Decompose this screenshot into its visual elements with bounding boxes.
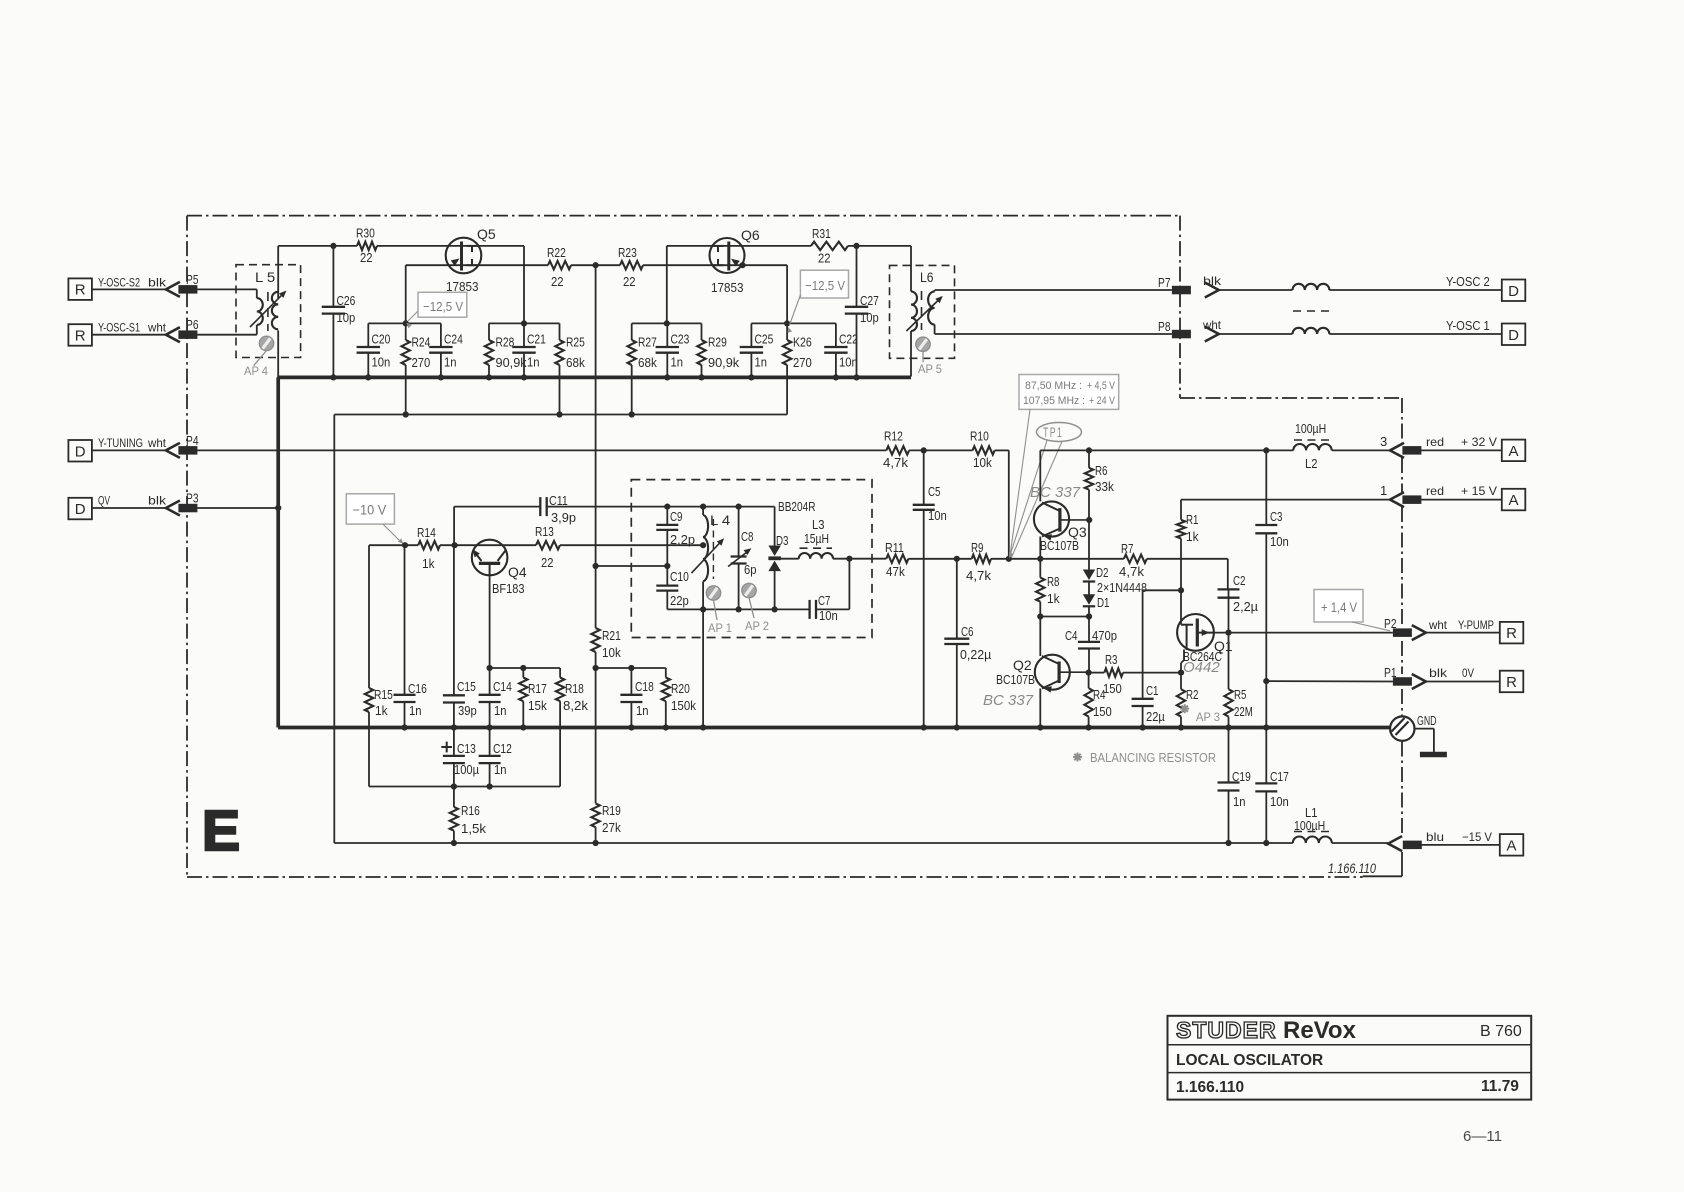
label L5: [255, 270, 275, 285]
wire: D2-D1 link: [1088, 582, 1090, 596]
svg-text:L1: L1: [1305, 806, 1318, 820]
label R27 value 68k: [638, 356, 657, 370]
node: R6 top junction: [1086, 447, 1092, 453]
capacitor C15: [443, 545, 465, 727]
node: L4 tap junction: [700, 542, 706, 548]
label L2 value 100µH: [1295, 422, 1326, 436]
svg-text:22: 22: [623, 275, 636, 289]
wire: block rail R27/C23/R29: [632, 322, 702, 324]
svg-text:R13: R13: [535, 525, 554, 539]
svg-text:R23: R23: [618, 246, 637, 260]
label R24: [412, 336, 431, 350]
svg-text:B 760: B 760: [1480, 1023, 1522, 1040]
label R10 value 10k: [973, 456, 992, 470]
wire: GND to earth: [1415, 729, 1434, 753]
label C21: [527, 333, 546, 347]
svg-text:P6: P6: [186, 318, 199, 332]
label R18: [565, 682, 584, 696]
wire: bead to D box (Y-OSC 2): [1329, 289, 1502, 291]
label 2x1N4448: [1097, 581, 1147, 595]
transistor Q4 (BF183): [472, 540, 508, 576]
svg-text:150: 150: [1103, 682, 1122, 696]
label R28 value 90,9k: [496, 356, 528, 370]
label BALANCING RESISTOR: [1090, 751, 1216, 765]
capacitor C16: [394, 545, 416, 727]
label C17 value 10n: [1270, 795, 1289, 809]
svg-text:C26: C26: [337, 294, 356, 308]
svg-text:C13: C13: [457, 742, 476, 756]
svg-text:O442: O442: [1183, 659, 1220, 676]
label R20 value 150k: [671, 699, 697, 713]
resistor R8: [1036, 559, 1044, 617]
node: ground bus junction C14/C12: [487, 724, 493, 730]
label Q1: [1214, 638, 1233, 654]
label Q6 type 17853: [711, 280, 744, 295]
connector pin P6: [166, 318, 199, 342]
resistor R23: [620, 261, 643, 269]
svg-text:+ 24 V: + 24 V: [1089, 395, 1116, 407]
label R6 value 33k: [1095, 480, 1114, 494]
wire: bead coupling dashes: [1293, 310, 1331, 312]
svg-text:22: 22: [360, 251, 373, 265]
wire: L5 variable-adjust arrow: [250, 291, 286, 328]
label C27: [860, 294, 879, 308]
wire: feedback column top: [595, 265, 597, 628]
label blu -15V: [1426, 830, 1492, 844]
svg-text:R19: R19: [602, 804, 621, 818]
ground terminal GND: [1390, 713, 1436, 741]
wire: L6 secondary top to P7: [935, 290, 1172, 291]
svg-text:33k: 33k: [1095, 480, 1114, 494]
label R15 value 1k: [375, 704, 388, 718]
transistor Q3 (BC107B): [1034, 501, 1089, 540]
capacitor C7: [810, 600, 816, 619]
svg-text:blk: blk: [148, 494, 167, 508]
svg-text:1k: 1k: [375, 704, 388, 718]
capacitor C27: [845, 246, 868, 378]
wire: Y-TUNING line across: [197, 449, 886, 451]
label C25: [755, 333, 774, 347]
label Q1 type BC264C: [1183, 649, 1222, 664]
node: rail junction R29: [698, 374, 704, 380]
resistor R30: [357, 242, 377, 250]
svg-text:A: A: [1508, 443, 1518, 460]
node: rail junction R28: [486, 374, 492, 380]
capacitor C19: [1218, 728, 1240, 844]
capacitor C25: [740, 323, 763, 377]
svg-text:AP 2: AP 2: [745, 619, 769, 633]
inductor L3: [799, 553, 833, 559]
capacitor C20: [357, 323, 380, 377]
svg-text:3: 3: [1380, 434, 1387, 449]
wire: border corner jog at -15V feedthrough: [1363, 852, 1402, 876]
node: rail junction C27: [853, 374, 859, 380]
capacitor C22: [824, 323, 847, 377]
svg-text:1k: 1k: [422, 557, 435, 571]
wire: dash-dot board boundary bottom edge: [187, 876, 1363, 878]
wire: dash-dot board boundary right lower edge: [1401, 398, 1403, 836]
svg-text:1n: 1n: [755, 356, 768, 370]
svg-text:L6: L6: [920, 270, 934, 285]
wire: R22-R23 link: [571, 264, 620, 266]
transistor Q5 (17853 dual-gate MOSFET): [446, 238, 482, 274]
connector box A (+32V): [1502, 440, 1526, 462]
resistor R7: [1124, 555, 1147, 563]
label C10: [670, 570, 689, 584]
adjustment point AP2: [742, 583, 769, 633]
label R1 value 1k: [1186, 530, 1199, 544]
label R24 value 270: [412, 356, 431, 370]
wire: L2 core dashes: [1294, 439, 1331, 441]
capacitor C24: [429, 323, 452, 377]
node: R1 bottom junction: [1178, 587, 1184, 593]
label red +32V: [1426, 435, 1497, 449]
node: ground bus junction C6: [954, 724, 960, 730]
node: ground bus junction C17: [1263, 724, 1269, 730]
transistor Q1 (BC264C JFET): [1177, 614, 1214, 651]
label Q6: [741, 227, 760, 243]
svg-text:470p: 470p: [1092, 629, 1117, 643]
svg-text:D3: D3: [776, 534, 789, 548]
label C8 value 6p: [744, 563, 757, 577]
node: ground bus junction Q2 emitter: [1037, 724, 1043, 730]
annotation box +1,4V: [1314, 590, 1390, 631]
label R3: [1105, 653, 1118, 667]
node: tank top rail C9 junction: [664, 504, 670, 510]
label R9: [971, 541, 984, 555]
adjustment point AP5: [916, 337, 942, 376]
svg-text:10n: 10n: [928, 509, 947, 523]
node: -15V junction R16: [451, 840, 457, 846]
capacitor C11: [540, 497, 546, 516]
svg-text:C27: C27: [860, 294, 879, 308]
label R10: [970, 430, 989, 444]
svg-text:15k: 15k: [528, 699, 547, 713]
wire: thick ground bus: [278, 726, 1390, 730]
label C19: [1232, 770, 1251, 784]
wire: L6 core dashes: [921, 291, 923, 330]
label O442 pencil note: [1183, 659, 1220, 676]
label R25: [566, 336, 585, 350]
label R27: [638, 336, 657, 350]
node: ground bus junction C1: [1140, 724, 1146, 730]
svg-text:10n: 10n: [1270, 535, 1289, 549]
node: base/C14 junction: [487, 665, 493, 671]
svg-text:Q6: Q6: [741, 227, 760, 243]
svg-text:C23: C23: [671, 333, 690, 347]
svg-text:Y-TUNING: Y-TUNING: [98, 436, 143, 450]
label R29 value 90,9k: [708, 356, 740, 370]
label C2 value 2,2µ: [1233, 600, 1258, 614]
svg-text:R30: R30: [356, 227, 375, 241]
wire: Q6 drain feed from block2: [666, 246, 668, 324]
node: C26 tap on drain rail: [330, 243, 336, 249]
node: ground bus junction R4: [1086, 724, 1092, 730]
label AP 3: [1196, 710, 1220, 724]
label QV blk: [98, 494, 167, 508]
svg-text:22: 22: [551, 275, 564, 289]
svg-text:AP 4: AP 4: [244, 364, 268, 378]
wire: L3 core dashes: [800, 547, 833, 549]
node: Q6 gate junction: [739, 262, 745, 268]
svg-text:C19: C19: [1232, 770, 1251, 784]
label R14 value 1k: [422, 557, 435, 571]
node: bias bus junction R27: [629, 411, 635, 417]
svg-text:1n: 1n: [444, 356, 457, 370]
svg-text:R6: R6: [1095, 464, 1108, 478]
svg-text:4,7k: 4,7k: [966, 569, 992, 583]
connector pin P3: [166, 492, 199, 516]
label L3: [812, 518, 825, 532]
svg-text:R1: R1: [1186, 513, 1199, 527]
capacitor C9: [656, 507, 678, 566]
svg-text:R29: R29: [708, 336, 727, 350]
label Y-OSC 2: [1446, 275, 1490, 289]
wire: +15V line: [1181, 499, 1390, 501]
wire: R7 to C2 column: [1147, 559, 1228, 590]
svg-text:R8: R8: [1047, 575, 1060, 589]
svg-text:A: A: [1508, 492, 1518, 509]
node: rail junction C26: [330, 374, 336, 380]
wire: L6 variable-adjust arrow: [906, 296, 942, 331]
label C13: [457, 742, 476, 756]
svg-text:D1: D1: [1097, 596, 1110, 610]
svg-text:+ 1,4 V: + 1,4 V: [1321, 600, 1357, 615]
resistor R25: [555, 323, 563, 414]
node: P1 0V junction: [1263, 678, 1269, 684]
wire: C3 column to ground bus: [1265, 681, 1267, 727]
node: -15V junction R19: [593, 840, 599, 846]
svg-text:Y-OSC 2: Y-OSC 2: [1446, 275, 1490, 289]
svg-text:4,7k: 4,7k: [1119, 565, 1145, 579]
label C27 value 10p: [860, 311, 879, 325]
svg-text:GND: GND: [1417, 713, 1437, 728]
svg-text:blk: blk: [1203, 274, 1222, 288]
connector pin P2: [1384, 617, 1426, 640]
label R5 value 22M: [1234, 705, 1253, 719]
svg-text:270: 270: [412, 356, 431, 370]
label R21 value 10k: [602, 646, 621, 660]
label Q5 type 17853: [446, 279, 479, 294]
svg-text:R10: R10: [970, 430, 989, 444]
label C17: [1270, 770, 1289, 784]
svg-text:D: D: [1508, 327, 1519, 344]
node: ground bus junction L4: [700, 724, 706, 730]
node: tank top rail C8 junction: [736, 504, 742, 510]
label Y-OSC-S2 blk: [98, 276, 167, 290]
node: rail junction C20: [365, 374, 371, 380]
node: Q1 drain / R3 junction: [1178, 670, 1184, 676]
svg-text:+ 4,5 V: + 4,5 V: [1087, 380, 1116, 392]
label C26: [337, 294, 356, 308]
label 1.166.110 (title): [1176, 1079, 1244, 1096]
resistor R3: [1089, 668, 1179, 676]
label R8: [1047, 575, 1060, 589]
capacitor C12: [479, 728, 501, 787]
svg-text:2×1N4448: 2×1N4448: [1097, 581, 1147, 595]
svg-text:−10 V: −10 V: [353, 503, 387, 518]
node: tank bottom C8 junction: [736, 606, 742, 612]
wire: Q1 gate lead: [1180, 590, 1182, 624]
label R2: [1186, 688, 1199, 702]
svg-text:6—11: 6—11: [1463, 1128, 1502, 1145]
label Q3: [1068, 524, 1087, 540]
svg-text:10n: 10n: [1270, 795, 1289, 809]
node: L3/C7 junction: [846, 556, 852, 562]
svg-text:1n: 1n: [671, 356, 684, 370]
wire: L5 core dashes: [267, 292, 269, 331]
label R17 value 15k: [528, 699, 547, 713]
svg-text:R7: R7: [1121, 542, 1134, 556]
svg-text:90,9k: 90,9k: [708, 356, 740, 370]
svg-text:2,2p: 2,2p: [670, 533, 695, 547]
label R13: [535, 525, 554, 539]
diode D1: [1083, 594, 1110, 610]
logo REVOX: [1283, 1017, 1357, 1044]
resistor R31: [811, 242, 848, 250]
svg-text:C18: C18: [635, 680, 654, 694]
wire: Q2 emitter to ground bus: [1039, 689, 1041, 728]
connector pin 1 (+15V): [1380, 483, 1421, 507]
svg-text:R15: R15: [374, 688, 393, 702]
label K26 value 270: [793, 356, 812, 370]
adjustment point AP1: [706, 586, 732, 635]
node: ground bus junction C18: [628, 724, 634, 730]
label C18 value 1n: [636, 704, 649, 718]
label C3: [1270, 510, 1283, 524]
node: tank bottom D3 junction: [772, 606, 778, 612]
wire: R15 column from line: [368, 545, 370, 688]
label C25 value 1n: [755, 356, 768, 370]
svg-text:R25: R25: [566, 336, 585, 350]
svg-text:C6: C6: [961, 625, 974, 639]
label BB204R: [778, 500, 816, 514]
connector box R (Y-PUMP): [1500, 622, 1524, 644]
svg-text:BALANCING RESISTOR: BALANCING RESISTOR: [1090, 751, 1216, 765]
svg-text:D: D: [1508, 283, 1519, 300]
label Q4 type BF183: [492, 581, 525, 596]
wire: Q5 gate line: [406, 264, 548, 266]
label C12 value 1n: [494, 763, 507, 777]
inductor L2: [1293, 444, 1331, 450]
svg-text:8,2k: 8,2k: [563, 699, 589, 713]
svg-text:1.166.110: 1.166.110: [1328, 861, 1376, 876]
resistor R16: [450, 787, 458, 844]
label C22 value 10n: [839, 356, 858, 370]
label C26 value 10p: [337, 311, 356, 325]
svg-text:1.166.110: 1.166.110: [1176, 1079, 1244, 1096]
wire: R10 corner down to TP1 node: [995, 450, 1009, 558]
inductor L5 primary winding: [257, 289, 263, 334]
wire: L3 to R11, exits box: [833, 558, 886, 560]
wire: D3 column top: [773, 507, 776, 546]
svg-text:R31: R31: [812, 227, 831, 241]
svg-text:STUDER: STUDER: [1176, 1017, 1277, 1043]
wire: varicap to L3: [775, 558, 799, 560]
node: loop junction C12: [487, 783, 493, 789]
svg-text:47k: 47k: [886, 565, 905, 579]
svg-text:107,95 MHz :: 107,95 MHz :: [1023, 395, 1085, 407]
label R29: [708, 336, 727, 350]
wire: L5 secondary top to oscillator rail: [277, 246, 279, 299]
svg-text:C16: C16: [408, 682, 427, 696]
capacitor C21: [512, 323, 535, 377]
label R18 value 8,2k: [563, 699, 589, 713]
svg-text:C5: C5: [928, 485, 941, 499]
label C19 value 1n: [1233, 795, 1246, 809]
node: R8/D1 junction left: [1037, 613, 1043, 619]
resistor R15: [365, 688, 373, 787]
label R4 value 150: [1093, 705, 1112, 719]
node: tank top rail L4 junction: [700, 504, 706, 510]
node: C6 junction: [954, 556, 960, 562]
label C4 value 470p: [1092, 629, 1117, 643]
svg-text:E: E: [202, 799, 240, 863]
svg-text:C8: C8: [741, 530, 754, 544]
wire: -15V distribution line: [334, 842, 1293, 844]
capacitor C26: [322, 246, 345, 378]
wire: R8-D1 tie: [1040, 616, 1089, 618]
wire: R9 to Q3 node: [991, 558, 1040, 560]
label C14: [493, 680, 512, 694]
label R7 value 4,7k: [1119, 565, 1145, 579]
node: rail junction C21: [521, 374, 527, 380]
label R12: [884, 430, 903, 444]
connector box A (-15V): [1500, 834, 1524, 856]
svg-text:+ 15 V: + 15 V: [1461, 484, 1497, 498]
node: C11/C15 junction: [452, 542, 458, 548]
svg-text:R27: R27: [638, 336, 657, 350]
node: ground bus junction R5: [1225, 724, 1231, 730]
inductor L1: [1293, 837, 1332, 844]
node: -12.5V bias node block1: [403, 320, 409, 326]
connector box R (0V): [1500, 671, 1524, 693]
wire: L1 to -15V pin: [1332, 842, 1388, 844]
svg-text:−12,5 V: −12,5 V: [423, 299, 463, 314]
label C9 value 2,2p: [670, 533, 695, 547]
resistor R6: [1085, 450, 1093, 520]
label C21 value 1n: [527, 356, 540, 370]
label C5: [928, 485, 941, 499]
resistor R5: [1224, 633, 1232, 728]
svg-text:BC 337: BC 337: [983, 692, 1034, 709]
annotation test point TP1: [1009, 423, 1082, 559]
label R28: [496, 336, 515, 350]
wire: Q5 drain rail y=246: [278, 245, 524, 247]
svg-text:red: red: [1426, 484, 1444, 498]
wire: Y-TUNING lead: [92, 449, 166, 451]
svg-text:1n: 1n: [527, 356, 540, 370]
svg-text:87,50 MHz :: 87,50 MHz :: [1025, 380, 1082, 392]
svg-text:R: R: [75, 282, 86, 299]
label L6: [920, 270, 934, 285]
wire: +32V lead: [1421, 449, 1502, 451]
label LOCAL OSCILATOR: [1176, 1052, 1323, 1069]
wire: block rail C25/K26/C22: [751, 322, 836, 324]
svg-text:D: D: [75, 501, 86, 518]
label L1: [1305, 806, 1318, 820]
svg-text:C15: C15: [457, 680, 476, 694]
label R19: [602, 804, 621, 818]
label C11: [549, 494, 568, 508]
label C16 value 1n: [409, 704, 422, 718]
node: C18 junction: [628, 665, 634, 671]
capacitor C23: [656, 323, 679, 377]
label C7: [818, 594, 831, 608]
wire: ground column (thick) from rail to ground bus: [276, 377, 280, 727]
wire: C1 top link: [1143, 589, 1181, 591]
wire: D1 to C4 node: [1088, 606, 1090, 616]
